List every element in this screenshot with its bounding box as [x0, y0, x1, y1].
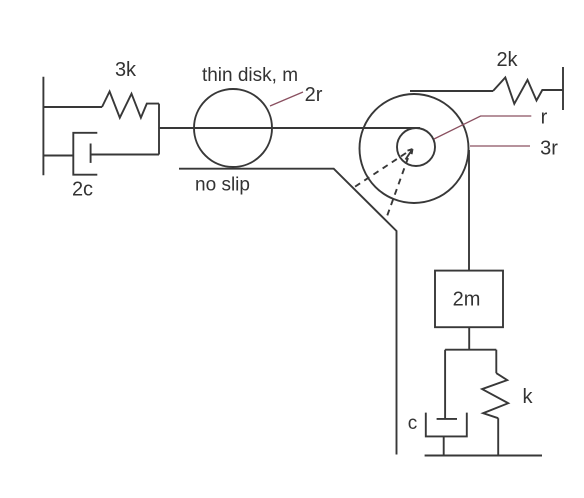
svg-text:r: r [541, 107, 548, 129]
leader line r [434, 116, 531, 139]
svg-text:k: k [523, 386, 534, 408]
svg-text:2m: 2m [453, 289, 481, 311]
T-bar [445, 349, 496, 351]
axle wire disk to pulley [159, 127, 420, 129]
right wall [562, 67, 564, 110]
pulley inner circle r [397, 128, 435, 166]
thin disk m [194, 89, 272, 167]
svg-text:2k: 2k [496, 49, 518, 71]
svg-text:2r: 2r [305, 84, 323, 106]
svg-text:3r: 3r [540, 138, 558, 160]
spring k lower rod [497, 418, 499, 455]
svg-text:3k: 3k [115, 59, 137, 81]
rod below mass [468, 327, 470, 350]
left wall [42, 77, 44, 176]
damper 2c piston [90, 144, 92, 163]
hanging cord pulley to mass [468, 150, 470, 271]
mass 2m box [435, 271, 503, 328]
top cord pulley to spring 2k [410, 90, 493, 92]
svg-text:c: c [408, 413, 418, 434]
leader line 3r [470, 145, 530, 147]
wire wall to damper 2c [43, 155, 73, 157]
svg-text:2c: 2c [72, 179, 93, 201]
damper c piston [437, 418, 457, 420]
spring k [482, 373, 508, 418]
no slip surface with incline and drop [179, 169, 397, 455]
pulley outer circle 3r [360, 94, 469, 203]
damper c cylinder [426, 413, 467, 437]
dashed radius to incline 2 [386, 158, 408, 219]
spring k upper rod [495, 350, 497, 373]
svg-text:no slip: no slip [195, 175, 250, 196]
wire wall to spring 3k [43, 106, 102, 108]
spring 2k [493, 78, 563, 104]
damper 2c piston rod [91, 154, 159, 156]
dashed radius to incline 1 [353, 153, 406, 188]
damper c lower rod [443, 436, 445, 455]
rotation arrow at pulley center [406, 149, 413, 160]
damper c rod [444, 350, 446, 419]
connecting bar (spring/damper junction) [158, 104, 160, 155]
ground [425, 455, 542, 457]
spring 3k [102, 92, 159, 118]
svg-text:thin disk, m: thin disk, m [202, 65, 298, 86]
damper 2c cylinder [73, 133, 97, 175]
leader line 2r [270, 92, 303, 106]
